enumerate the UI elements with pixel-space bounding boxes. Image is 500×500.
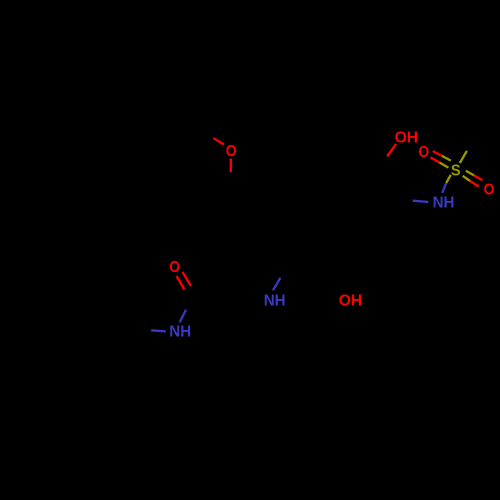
wire S=O2 double bond upper line (olive half) — [466, 171, 474, 176]
wire S=O1 double bond lower line (red half) — [430, 157, 439, 162]
wire S-N bond (olive half) — [446, 175, 451, 183]
wire C=O double bond left line (red half) — [177, 276, 185, 290]
wire S=O1 double bond upper line (olive half) — [442, 156, 451, 161]
wire methoxy O-ring bond (red half) — [230, 159, 232, 173]
wire S-N bond (blue half) — [442, 183, 446, 193]
wire S=O1 double bond upper line (red half) — [433, 151, 442, 156]
wire S=O1 double bond lower line (olive half) — [440, 163, 449, 168]
wire S=O2 double bond lower line (olive half) — [463, 176, 470, 181]
wire S=O2 double bond upper line (red half) — [474, 175, 482, 180]
wire amide C-N bond (blue half) — [180, 310, 186, 323]
wire C-OH bond (red half) — [387, 144, 396, 156]
svg-text:OH: OH — [395, 130, 418, 147]
wire S-CH3 bond (olive half) — [460, 151, 467, 163]
wire S=O2 double bond lower line (red half) — [470, 181, 479, 187]
wire indole N-C bond (blue half) — [273, 278, 281, 290]
svg-text:NH: NH — [169, 324, 191, 341]
wire methoxy CH3-O bond (red half) — [214, 138, 225, 144]
svg-text:O: O — [418, 144, 429, 161]
svg-text:O: O — [169, 259, 180, 276]
svg-text:S: S — [451, 162, 461, 179]
svg-text:O: O — [484, 181, 495, 198]
svg-text:NH: NH — [264, 292, 286, 309]
wire C=O double bond right line (red half) — [183, 272, 192, 286]
svg-text:NH: NH — [433, 194, 455, 211]
svg-text:O: O — [226, 143, 237, 160]
wire N-ring bond (blue half) — [413, 201, 429, 202]
wire amide N-C bond (blue half) — [151, 330, 166, 331]
svg-text:OH: OH — [339, 292, 362, 309]
